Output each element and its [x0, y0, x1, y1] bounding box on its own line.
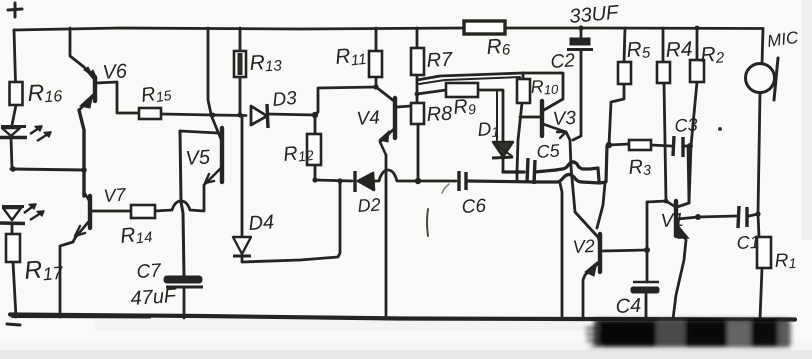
svg-text:C3: C3	[674, 114, 698, 136]
svg-text:V3: V3	[552, 108, 577, 130]
svg-text:D2: D2	[357, 194, 381, 216]
svg-text:R7: R7	[426, 49, 454, 72]
svg-text:C4: C4	[615, 295, 642, 318]
svg-text:47uF: 47uF	[130, 285, 179, 310]
svg-text:C6: C6	[461, 196, 487, 218]
svg-text:C1: C1	[736, 232, 760, 253]
svg-text:C2: C2	[550, 50, 576, 73]
svg-text:V2: V2	[572, 236, 595, 257]
svg-text:D4: D4	[248, 211, 275, 235]
svg-text:33UF: 33UF	[569, 2, 621, 28]
svg-text:C5: C5	[536, 140, 561, 162]
svg-text:C7: C7	[136, 260, 163, 283]
svg-text:D3: D3	[272, 88, 298, 111]
svg-text:V4: V4	[356, 107, 381, 130]
svg-text:R4: R4	[665, 38, 693, 62]
svg-text:V1: V1	[660, 210, 684, 232]
svg-text:R8: R8	[426, 103, 453, 126]
svg-text:V6: V6	[102, 60, 129, 84]
svg-text:V5: V5	[185, 146, 212, 170]
svg-text:V7: V7	[103, 184, 127, 206]
